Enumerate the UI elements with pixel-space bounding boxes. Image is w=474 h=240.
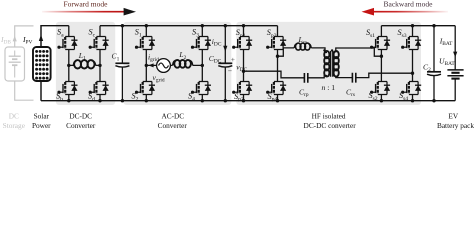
node bottom bus x381.4 bbox=[380, 99, 383, 102]
transistor Sa leg with Sb bbox=[68, 26, 70, 37]
wire Sp1 mid to Crp bbox=[244, 71, 305, 78]
svg-text:DC-DC converter: DC-DC converter bbox=[304, 121, 357, 130]
inductor L1 bbox=[69, 60, 100, 68]
inductor L2 bbox=[173, 60, 193, 68]
node grid left bbox=[145, 64, 148, 67]
svg-text:Solar: Solar bbox=[34, 111, 50, 120]
current arrow I_PV bbox=[39, 35, 43, 41]
current arrow i_grid bbox=[148, 63, 153, 67]
inductor Lrp bbox=[294, 43, 311, 50]
wire grid branch bbox=[146, 64, 202, 66]
wire secondary top bus bbox=[381, 25, 455, 27]
solar panel cells bbox=[35, 50, 38, 53]
battery EV pack bbox=[447, 70, 463, 79]
forward mode arrow bbox=[42, 11, 124, 13]
node bottom bus x243.5 bbox=[242, 99, 245, 102]
panel DC-DC converter bbox=[56, 22, 115, 105]
wire Sp3 mid to Lrp bbox=[278, 48, 295, 56]
svg-text:Converter: Converter bbox=[158, 121, 188, 130]
node S1 top bbox=[145, 24, 148, 27]
svg-text:HF isolated: HF isolated bbox=[312, 111, 346, 120]
capacitor C_DC branch bbox=[224, 26, 226, 63]
battery DB (DC storage, inactive) bbox=[5, 47, 25, 81]
svg-text:IBAT: IBAT bbox=[439, 37, 453, 48]
transistor Sp1 leg with Sp2 bbox=[243, 26, 245, 37]
svg-text:IPV: IPV bbox=[22, 35, 33, 46]
node bottom bus x225.3 bbox=[224, 99, 227, 102]
wire xfmr to Ss1 mid bbox=[336, 48, 382, 56]
svg-text:Storage: Storage bbox=[3, 121, 25, 130]
node bottom bus x146.3 bbox=[145, 99, 148, 102]
node bottom bus x202.3 bbox=[201, 99, 204, 102]
transistor Sp3 leg with Sp4 bbox=[277, 26, 279, 37]
svg-text:DC-DC: DC-DC bbox=[69, 111, 92, 120]
transistor S3 leg with S4 bbox=[201, 26, 203, 37]
panel AC-DC converter bbox=[124, 22, 232, 105]
svg-text:Battery pack: Battery pack bbox=[437, 121, 474, 130]
svg-text:EV: EV bbox=[448, 111, 458, 120]
wire Crp to xfmr bbox=[308, 76, 327, 78]
wire Lrp to xfmr bbox=[311, 48, 327, 53]
node bottom bus x277.5 bbox=[276, 99, 279, 102]
ac source v_grid bbox=[157, 59, 171, 73]
node Sp1 top bbox=[242, 24, 245, 27]
svg-text:n : 1: n : 1 bbox=[322, 83, 336, 92]
svg-text:UBAT: UBAT bbox=[439, 57, 455, 68]
transistor Sc leg with Sd bbox=[99, 26, 101, 37]
current arrow I_DB bbox=[13, 36, 17, 42]
node bottom bus x68.8 bbox=[67, 99, 70, 102]
node Sp1 mid bbox=[242, 70, 245, 73]
transistor S1 leg with S2 bbox=[145, 26, 147, 37]
svg-text:Backward mode: Backward mode bbox=[384, 0, 434, 9]
node L1 left bbox=[67, 64, 70, 67]
node C1 top bbox=[121, 24, 124, 27]
svg-text:Power: Power bbox=[32, 121, 51, 130]
node C_DC top bbox=[224, 24, 227, 27]
wire top bus DC link bbox=[100, 25, 278, 27]
svg-text:+: + bbox=[231, 55, 235, 64]
node grid right bbox=[201, 64, 204, 67]
svg-text:DC: DC bbox=[9, 111, 19, 120]
capacitor Crs bbox=[352, 73, 355, 83]
capacitor C2 bbox=[433, 26, 435, 72]
transistor Ss1 leg with Ss2 bbox=[380, 26, 382, 37]
node Ss3 top bbox=[411, 24, 414, 27]
wire PV bottom bbox=[40, 81, 42, 101]
panel HF isolated DC-DC converter bbox=[236, 22, 421, 105]
wire battery bottom bbox=[454, 79, 456, 101]
wire battery top bbox=[454, 26, 456, 70]
transformer n:1 bbox=[323, 49, 339, 77]
node Sp3 mid bbox=[276, 55, 279, 58]
node Ss3 mid bbox=[411, 72, 414, 75]
capacitor Crp bbox=[304, 73, 307, 83]
svg-text:IDB: IDB bbox=[0, 35, 11, 46]
wire DC storage bottom bbox=[15, 81, 34, 100]
wire Crs to Ss3 mid bbox=[356, 73, 412, 77]
backward mode arrow bbox=[374, 11, 448, 13]
svg-text:Converter: Converter bbox=[66, 121, 96, 130]
node S3 top bbox=[201, 24, 204, 27]
node C2 top bbox=[432, 24, 435, 27]
node Ss1 mid bbox=[380, 55, 383, 58]
svg-text:AC-DC: AC-DC bbox=[161, 111, 184, 120]
transistor Ss3 leg with Ss4 bbox=[412, 26, 414, 37]
node bottom bus x122.4 bbox=[121, 99, 124, 102]
node bottom bus x100.0 bbox=[98, 99, 101, 102]
solar panel PV bbox=[33, 47, 51, 81]
wire bottom bus bbox=[41, 100, 455, 102]
current arrow i_DC bbox=[223, 46, 227, 52]
current arrow I_BAT bbox=[453, 52, 457, 58]
svg-text:Forward mode: Forward mode bbox=[64, 0, 109, 9]
wire xfmr to Crs bbox=[336, 76, 352, 78]
node C2 bottom bbox=[432, 99, 435, 102]
wire PV top to bus bbox=[41, 26, 69, 47]
node L1 right bbox=[98, 64, 101, 67]
node Ss4 bottom bbox=[411, 99, 414, 102]
wire DC storage top bbox=[15, 26, 34, 47]
svg-text:−: − bbox=[228, 66, 232, 75]
svg-text:C2: C2 bbox=[423, 62, 431, 73]
capacitor C1 bbox=[121, 26, 123, 63]
